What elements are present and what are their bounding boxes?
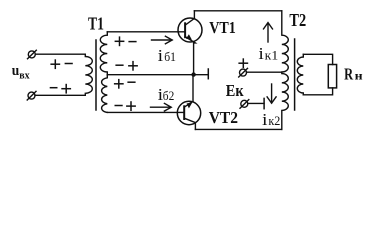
terminal Ek top [239, 68, 248, 77]
wire secondary to load top [303, 54, 332, 64]
transformer T1 primary winding [85, 54, 92, 95]
svg-text:б2: б2 [163, 89, 175, 103]
battery plate Ek right [263, 98, 265, 108]
polarity - primary top [65, 63, 73, 65]
wire collector rail top [194, 10, 281, 12]
polarity - secondary 1 top [128, 41, 136, 43]
label i_k1 [258, 44, 278, 63]
polarity + secondary 2 bottom [126, 101, 136, 111]
label u_vx [12, 63, 30, 81]
svg-text:VT2: VT2 [209, 108, 238, 127]
wire VT2 base [107, 111, 184, 113]
wire secondary to load bottom [303, 88, 332, 95]
label Rn [344, 65, 363, 84]
svg-text:к1: к1 [265, 49, 279, 63]
transistor VT1 [178, 11, 202, 75]
plus sign Ek [238, 58, 248, 68]
battery plate Ek left [207, 69, 209, 79]
svg-text:i: i [262, 110, 268, 129]
current arrow i_k2 [267, 84, 276, 103]
wire input bottom [35, 94, 85, 96]
transformer T2 core [294, 39, 296, 110]
polarity + primary top [50, 59, 60, 69]
svg-text:T2: T2 [289, 10, 306, 30]
wire Ek to T2 center tap [247, 71, 282, 73]
wire input top [35, 53, 85, 55]
polarity - primary bottom [50, 87, 58, 89]
wire Ek bottom to plate [248, 102, 264, 104]
label i_k2 [262, 110, 280, 129]
wire collector rail bottom [195, 128, 281, 130]
polarity - secondary 1 bottom [115, 64, 123, 66]
svg-text:T1: T1 [88, 13, 104, 33]
T1 secondary lower winding [102, 75, 108, 113]
T2 secondary winding [297, 54, 303, 95]
svg-text:VT1: VT1 [209, 18, 236, 37]
transformer T2 primary upper winding [282, 11, 289, 72]
svg-text:i: i [158, 46, 164, 65]
current arrow i_b1 [152, 36, 173, 44]
wire center tap to battery plate [107, 74, 208, 76]
input terminal bottom [27, 91, 36, 100]
current arrow i_b2 [151, 103, 172, 111]
terminal Ek bottom [240, 100, 249, 109]
polarity + secondary 1 top [115, 36, 125, 46]
junction dot emitters [191, 72, 195, 76]
input terminal top [28, 50, 37, 59]
svg-text:i: i [258, 44, 264, 63]
transformer T2 primary lower winding [282, 72, 289, 129]
svg-text:н: н [355, 69, 363, 83]
svg-text:к2: к2 [268, 114, 280, 128]
transistor VT2 [177, 75, 200, 130]
svg-text:u: u [12, 63, 19, 79]
svg-text:R: R [344, 65, 354, 84]
wire VT1 base [107, 31, 185, 33]
svg-text:вх: вх [19, 69, 30, 81]
polarity + secondary 2 top [114, 79, 124, 89]
current arrow i_k1 [264, 23, 273, 42]
label i_b2 [158, 85, 175, 104]
svg-text:б1: б1 [164, 50, 176, 64]
polarity + secondary 1 bottom [128, 61, 138, 71]
resistor Rn [328, 65, 336, 88]
label i_b1 [158, 46, 176, 65]
svg-text:Ек: Ек [226, 81, 244, 100]
T1 secondary upper winding [100, 32, 107, 75]
polarity - secondary 2 bottom [115, 105, 123, 107]
polarity - secondary 2 top [127, 81, 135, 83]
polarity + primary bottom [61, 84, 71, 94]
transformer T1 core [95, 40, 97, 110]
